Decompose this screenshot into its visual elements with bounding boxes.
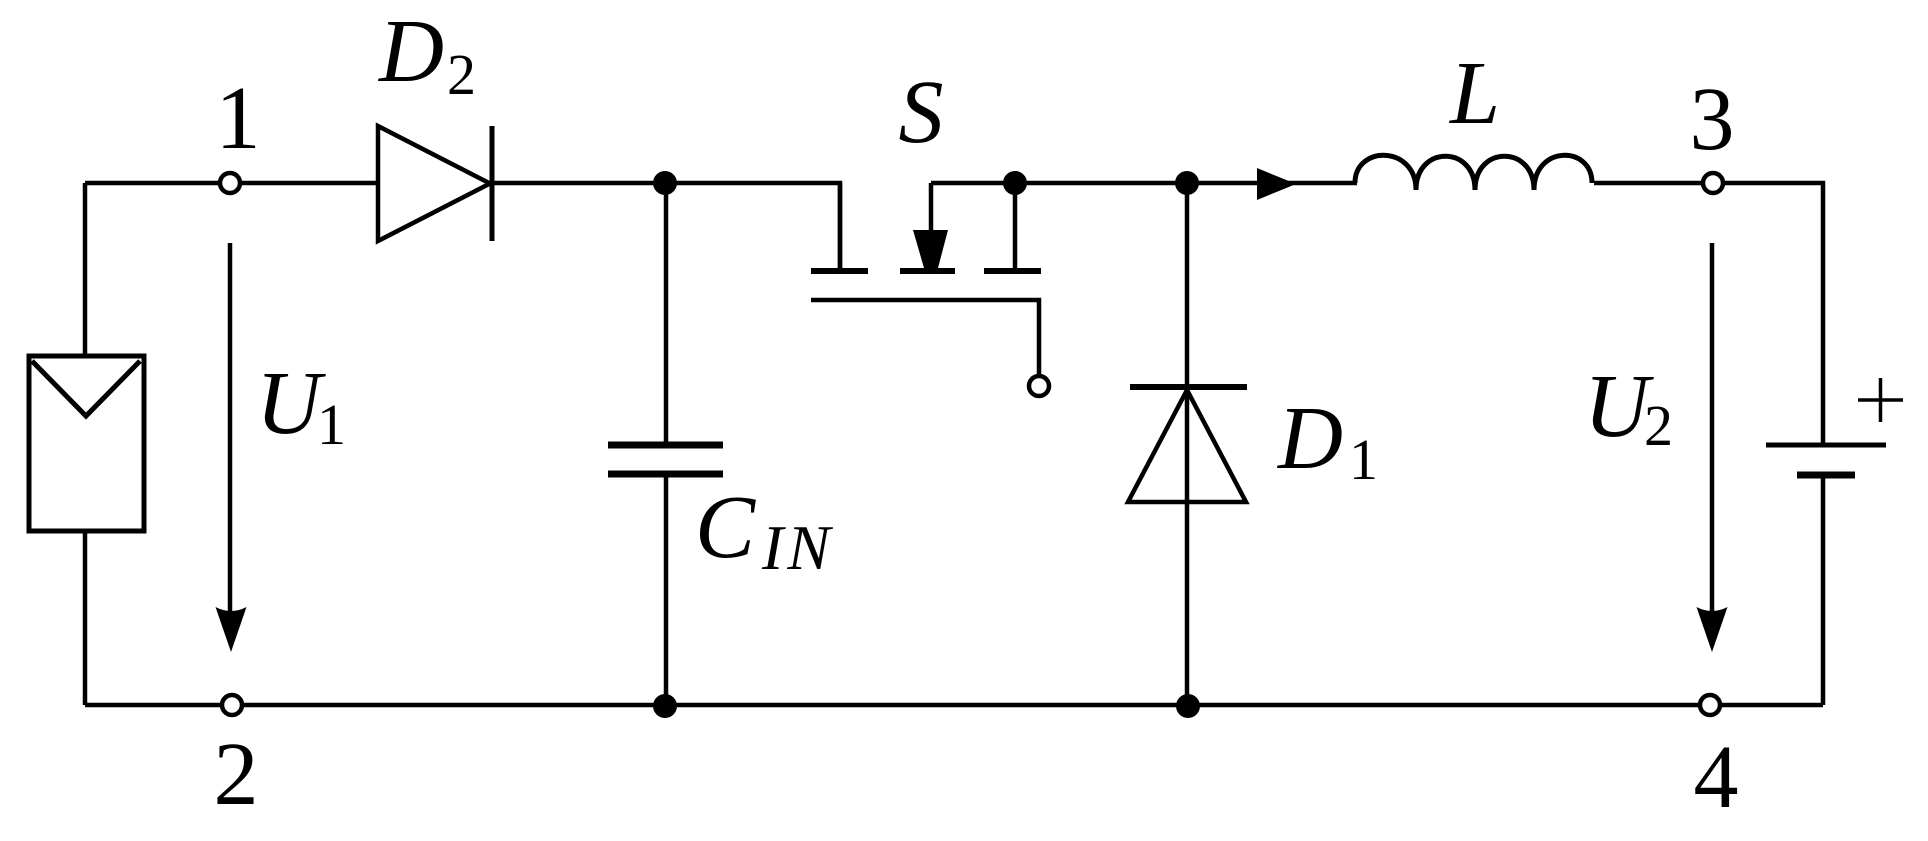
junction dot at C_IN bottom — [653, 694, 677, 718]
MOSFET S gate line — [811, 300, 1039, 375]
svg-text:C: C — [695, 478, 756, 577]
node 4 terminal circle — [1700, 695, 1720, 715]
junction dot at C_IN top — [653, 171, 677, 195]
MOSFET S body arrow head — [913, 230, 948, 268]
solar PV module chevron — [32, 361, 140, 416]
wire node 3 to right rail and down to battery — [1724, 183, 1823, 445]
MOSFET S gate terminal circle — [1029, 376, 1049, 396]
node 1 terminal circle — [220, 173, 240, 193]
capacitor C_IN bottom plate — [608, 471, 723, 478]
capacitor C_IN top plate — [608, 442, 723, 449]
svg-text:D: D — [1276, 389, 1343, 488]
svg-text:1: 1 — [1349, 427, 1378, 492]
junction dot at D1 bottom — [1176, 694, 1200, 718]
battery positive long plate — [1766, 443, 1886, 448]
MOSFET S body contact bar — [900, 268, 955, 274]
svg-text:4: 4 — [1694, 728, 1739, 827]
diode D1 cathode bar — [1130, 384, 1247, 390]
svg-text:2: 2 — [447, 42, 476, 107]
svg-text:2: 2 — [214, 725, 259, 824]
voltage arrow U2 head — [1697, 607, 1728, 652]
wire MOSFET source to D1 node to inductor — [931, 181, 1357, 186]
svg-text:IN: IN — [761, 512, 834, 583]
capacitor C_IN top lead — [664, 183, 669, 442]
wire left vertical from top wire down to PV module top — [83, 183, 88, 356]
voltage arrow U1 shaft — [228, 243, 233, 612]
junction dot at D1 top — [1175, 171, 1199, 195]
diode D2 triangle — [378, 126, 490, 241]
svg-text:2: 2 — [1644, 393, 1673, 458]
wire bottom rail — [85, 703, 1823, 708]
MOSFET S source lead — [1013, 183, 1018, 269]
plus sign near battery — [1858, 378, 1903, 422]
svg-text:U: U — [256, 354, 326, 453]
svg-text:D: D — [377, 2, 444, 101]
inductor L coils — [1355, 155, 1592, 190]
diode D1 vertical wire through — [1185, 183, 1190, 705]
svg-text:1: 1 — [317, 392, 346, 457]
MOSFET S body arrow lead — [929, 183, 934, 240]
wire PV module bottom to bottom rail — [83, 531, 88, 705]
voltage arrow U2 shaft — [1710, 243, 1715, 612]
svg-text:3: 3 — [1690, 70, 1735, 169]
solar PV module body — [29, 356, 144, 531]
MOSFET S source contact bar — [984, 268, 1041, 274]
diode D1 triangle — [1128, 390, 1246, 502]
svg-text:1: 1 — [216, 69, 261, 168]
svg-text:L: L — [1448, 44, 1500, 143]
voltage arrow U1 head — [216, 607, 247, 652]
junction dot at MOSFET source — [1003, 171, 1027, 195]
capacitor C_IN bottom lead — [664, 477, 669, 705]
diode D2 cathode bar — [490, 126, 495, 241]
wire top-left horizontal from PV to diode D2 — [85, 181, 378, 186]
svg-text:S: S — [899, 63, 944, 162]
node 2 terminal circle — [222, 695, 242, 715]
wire inductor to node 3 — [1594, 181, 1710, 186]
wire battery to bottom rail — [1821, 478, 1826, 705]
wire top middle from D2 bar through C_IN junction to MOSFET drain bend — [492, 183, 840, 269]
MOSFET S drain lead — [838, 183, 843, 269]
MOSFET S drain contact bar — [811, 268, 868, 274]
battery negative short plate — [1797, 472, 1855, 479]
current arrow head on wire to L — [1257, 168, 1296, 200]
node 3 terminal circle — [1703, 173, 1723, 193]
